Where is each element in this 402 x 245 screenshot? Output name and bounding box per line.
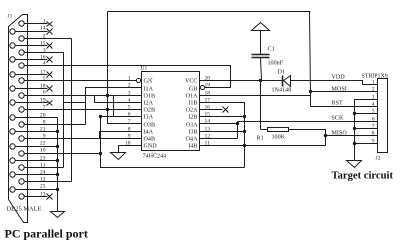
- svg-text:I2B: I2B: [188, 115, 197, 121]
- svg-text:74HC244: 74HC244: [143, 154, 167, 160]
- U1 pin19 inverting bubble: [200, 85, 204, 89]
- svg-text:C1: C1: [268, 47, 275, 53]
- U1 pin13 stub to MISO channel: [200, 131, 245, 133]
- J1 pin 19 wire: [16, 102, 48, 104]
- J1 pin 2 wire: [25, 38, 72, 40]
- junction dot pin14/SCK riser: [236, 122, 239, 125]
- J1 pin 17 circle: [10, 72, 15, 77]
- wire VCC line down to R1: [260, 81, 262, 130]
- junction dot pin6 row x100.4: [99, 115, 102, 118]
- J1 pin 6 circle: [19, 93, 24, 98]
- junction dot pin 25 / gnd rail: [56, 188, 59, 191]
- J1 pin 15 circle: [10, 43, 15, 48]
- J1 pin 1 circle: [19, 21, 24, 26]
- wire loopback pin2-pin12: [71, 39, 73, 182]
- svg-text:8: 8: [128, 127, 131, 133]
- junction dot wire10 x100.4: [99, 152, 102, 155]
- wire IC pin1 row from DB25 pin5: [25, 80, 137, 82]
- J1 pin 23 circle: [10, 158, 15, 163]
- junction dot IC pin5 row x107.8: [106, 108, 109, 111]
- wire J2 pin5 stub to rail: [355, 113, 378, 115]
- svg-text:VCC: VCC: [185, 79, 198, 85]
- J1 pin 17 no-connect X: [47, 72, 53, 78]
- svg-text:O3A: O3A: [186, 123, 198, 129]
- svg-text:19: 19: [40, 98, 46, 104]
- J1 pin 15 wire: [16, 45, 48, 47]
- J1 pin 25 circle: [10, 187, 15, 192]
- junction dot MOSI row riser: [309, 90, 312, 93]
- svg-text:1: 1: [43, 19, 46, 25]
- svg-text:GB: GB: [189, 87, 197, 93]
- svg-text:19: 19: [205, 83, 211, 89]
- wire pin10 drop to bottom channel: [101, 117, 245, 168]
- wire SCK to J2 pin6: [238, 121, 378, 123]
- J1 pin 21 circle: [10, 129, 15, 134]
- svg-text:6: 6: [128, 112, 131, 118]
- U1 pin20 VCC wire to D1: [200, 80, 283, 82]
- wire loopback pin3-pin11: [63, 53, 65, 168]
- J1 pin 11 wire: [25, 167, 64, 169]
- svg-text:GA: GA: [144, 79, 153, 85]
- J1 pin 18 circle: [10, 86, 15, 91]
- svg-text:22: 22: [40, 141, 46, 147]
- J1 pin 13 wire: [25, 196, 48, 198]
- RST riser from pin18 line: [310, 96, 312, 107]
- U1 pin11 wire I4B long: [200, 145, 326, 147]
- J1 pin 7 circle: [19, 107, 24, 112]
- svg-text:GND: GND: [144, 144, 158, 150]
- J1 pin 16 no-connect X: [47, 57, 53, 63]
- J1 pin 24 wire: [16, 174, 58, 176]
- ground symbol IC: [111, 153, 126, 160]
- svg-text:13: 13: [40, 192, 46, 198]
- svg-text:O1B: O1B: [144, 94, 156, 100]
- svg-text:9: 9: [128, 134, 131, 140]
- svg-text:4: 4: [128, 98, 131, 104]
- J1 pin 5 wire: [25, 80, 137, 82]
- J1 pin 23 wire: [16, 160, 58, 162]
- svg-text:DB25 MALE: DB25 MALE: [7, 206, 42, 213]
- svg-text:11: 11: [40, 163, 46, 169]
- wire branch to riser x85.9: [64, 102, 86, 104]
- U1 pin15 stub to MISO channel: [200, 116, 245, 118]
- diode D1 cathode bar: [282, 76, 284, 87]
- J1 pin 25 wire: [16, 189, 58, 191]
- J1 pin 16 wire: [16, 59, 48, 61]
- svg-text:8: 8: [43, 120, 46, 126]
- J1 pin 22 circle: [10, 144, 15, 149]
- J1 pin 16 circle: [10, 57, 15, 62]
- svg-text:I3B: I3B: [188, 130, 197, 136]
- junction dot rail pin5: [353, 112, 356, 115]
- junction dot pin 21 / gnd rail: [56, 130, 59, 133]
- svg-text:I4A: I4A: [144, 130, 154, 136]
- junction dot pin 24 / gnd rail: [56, 173, 59, 176]
- junction dot rail pin9: [353, 142, 356, 145]
- vertical top bus to MOSI: [310, 12, 311, 96]
- J1 pin 1 wire: [25, 23, 48, 25]
- J1 pin 14 circle: [10, 29, 15, 34]
- J1 pin 19 no-connect X: [47, 101, 53, 106]
- J1 pin 4 circle: [19, 63, 24, 68]
- J1 pin 8 wire: [25, 124, 86, 126]
- svg-text:I4B: I4B: [188, 144, 197, 150]
- U1 pin14 stub to SCK riser: [200, 123, 238, 125]
- svg-text:7: 7: [372, 124, 375, 130]
- svg-text:21: 21: [40, 127, 46, 133]
- U1 pin1 inverting bubble: [136, 78, 140, 82]
- J1 pin 9 circle: [19, 136, 24, 141]
- svg-text:I1B: I1B: [188, 101, 197, 107]
- J1 pin 6 wire: [25, 95, 142, 97]
- wire VCC symbol to C1: [260, 31, 262, 55]
- wire pin8 riser to IC pin2: [86, 88, 142, 125]
- diode D1 triangle: [284, 76, 291, 87]
- svg-text:9: 9: [372, 139, 375, 145]
- J1 pin 8 circle: [19, 122, 24, 127]
- svg-text:Target circuit: Target circuit: [332, 171, 394, 182]
- wire IC pin5 row from DB25 pin7: [25, 109, 142, 111]
- J1 pin 14 wire: [16, 31, 48, 33]
- J2 gnd rail: [355, 100, 378, 161]
- svg-text:MOSI: MOSI: [332, 87, 347, 93]
- svg-text:4: 4: [372, 102, 375, 108]
- svg-text:J2: J2: [376, 156, 381, 162]
- svg-text:O4B: O4B: [144, 137, 156, 143]
- op IC U1 74HC244 body: [142, 72, 200, 151]
- J1 pin 24 circle: [10, 172, 15, 177]
- wire R1 right lead to MISO: [289, 130, 326, 146]
- J1 pin 2 circle: [19, 36, 24, 41]
- svg-text:25: 25: [40, 184, 46, 190]
- SCK riser vertical: [237, 122, 239, 139]
- U1 pin17 wire I1B to MISO channel: [200, 103, 245, 168]
- J1 pin 21 wire: [16, 131, 58, 133]
- J1 pin 12 circle: [19, 179, 24, 184]
- U1 pin12 stub to SCK riser: [200, 138, 238, 140]
- svg-text:PC parallel port: PC parallel port: [5, 227, 88, 241]
- svg-text:9: 9: [43, 134, 46, 140]
- capacitor C1 plates: [252, 54, 270, 56]
- svg-text:2: 2: [372, 87, 375, 93]
- vertical O1B/O2B tie to top wire: [107, 12, 109, 110]
- svg-text:24: 24: [40, 170, 46, 176]
- svg-text:14: 14: [40, 26, 46, 32]
- wire pin4 row from pin3 row: [95, 96, 142, 103]
- wire C1 to VCC line: [261, 58, 262, 81]
- J1 pin 4 wire: [25, 65, 231, 67]
- J1 pin 20 wire: [16, 117, 58, 119]
- J1 pin 19 circle: [10, 100, 15, 105]
- svg-text:5: 5: [128, 105, 131, 111]
- wire pin9 riser to IC pin8: [100, 132, 142, 139]
- J1 pin 15 no-connect X: [47, 43, 53, 49]
- J1 pin 17 wire: [16, 74, 48, 76]
- svg-text:3: 3: [43, 48, 46, 54]
- svg-text:O1A: O1A: [186, 94, 198, 100]
- svg-text:O4A: O4A: [186, 137, 198, 143]
- svg-text:7: 7: [128, 119, 131, 125]
- junction dot MISO row: [324, 134, 327, 137]
- J1 pin 10 wire: [25, 153, 101, 155]
- svg-text:I3A: I3A: [144, 115, 154, 121]
- svg-text:2: 2: [128, 83, 131, 89]
- svg-text:2: 2: [43, 34, 46, 40]
- svg-text:U1: U1: [141, 66, 148, 72]
- J1 pin 14 no-connect X: [47, 29, 53, 35]
- J1 pin 7 wire: [25, 109, 142, 111]
- junction dot pin 22 / gnd rail: [56, 145, 59, 148]
- wire R1 left lead: [261, 129, 268, 131]
- svg-text:6: 6: [43, 90, 46, 96]
- wire MISO to J2 pin8: [326, 135, 378, 137]
- svg-text:6: 6: [372, 117, 375, 123]
- wire RST to J2 pin4: [311, 106, 378, 108]
- junction dot rail pin7: [353, 127, 356, 130]
- svg-text:3: 3: [372, 95, 375, 101]
- U1 pin10 GND wire: [119, 146, 142, 153]
- svg-text:100K: 100K: [272, 135, 286, 141]
- J1 pin 12 wire: [25, 181, 72, 183]
- svg-text:STRIP1X9: STRIP1X9: [362, 74, 388, 80]
- J1 pin 20 circle: [10, 115, 15, 120]
- J1 pin 5 circle: [19, 78, 24, 83]
- resistor R1 body: [268, 128, 289, 132]
- U1 pin18 wire O1A long: [200, 95, 311, 97]
- svg-text:100nF: 100nF: [268, 61, 284, 67]
- svg-text:O2B: O2B: [144, 108, 156, 114]
- svg-text:O3B: O3B: [144, 123, 156, 129]
- svg-text:8: 8: [372, 131, 375, 137]
- J1 pin 18 no-connect X: [47, 86, 53, 92]
- wire DB25 pin4 over IC to pin19: [25, 66, 231, 88]
- wire pin6 stub to IC pin6: [101, 116, 142, 118]
- wire IC pin7 stub from x107.8: [108, 110, 142, 124]
- GND rail wire from pin 20 down: [57, 118, 59, 212]
- ground symbol PC side: [51, 212, 65, 218]
- wire D1 to VDD: [291, 81, 378, 85]
- svg-text:D1: D1: [278, 70, 285, 76]
- J1 pin 13 no-connect X: [47, 194, 53, 200]
- svg-text:VDD: VDD: [332, 75, 346, 81]
- wire J2 pin9 stub to rail: [355, 143, 378, 145]
- connector J2 body: [378, 79, 388, 153]
- junction dot pin11/MISO channel: [243, 144, 246, 147]
- junction dot IC pin3 row x107.8: [106, 94, 109, 97]
- svg-text:RST: RST: [332, 101, 343, 107]
- svg-text:20: 20: [40, 113, 46, 119]
- J1 pin 1 no-connect X: [47, 22, 53, 27]
- svg-text:12: 12: [40, 177, 46, 183]
- svg-text:MISO: MISO: [332, 131, 348, 137]
- svg-text:I2A: I2A: [144, 101, 154, 107]
- svg-text:3: 3: [128, 91, 131, 97]
- J1 pin 3 circle: [19, 50, 24, 55]
- junction dot VCC/C1/R1: [259, 79, 262, 82]
- svg-text:I1A: I1A: [144, 87, 154, 93]
- svg-text:23: 23: [40, 156, 46, 162]
- svg-text:1: 1: [372, 80, 375, 86]
- U1 pin16 stub with no-connect X: [200, 109, 223, 111]
- connector J1 DB25 body: [9, 15, 28, 223]
- svg-text:J1: J1: [8, 14, 13, 20]
- svg-text:O2A: O2A: [186, 108, 198, 114]
- J1 pin 11 circle: [19, 165, 24, 170]
- wire pin3 row to pin6 row vertical: [113, 96, 115, 117]
- wire MOSI to J2 pin2: [311, 91, 378, 93]
- J1 pin 10 circle: [19, 151, 24, 156]
- svg-text:1: 1: [128, 76, 131, 82]
- svg-text:SCK: SCK: [332, 116, 344, 122]
- J1 pin 3 wire: [25, 52, 64, 54]
- svg-text:15: 15: [40, 41, 46, 47]
- svg-text:5: 5: [372, 109, 375, 115]
- top bus wire: [108, 11, 311, 13]
- J1 pin 18 wire: [16, 88, 48, 90]
- ground symbol target side: [347, 161, 362, 168]
- svg-text:10: 10: [40, 148, 46, 154]
- J1 pin 13 circle: [19, 194, 24, 199]
- J1 pin 9 wire: [25, 138, 142, 140]
- svg-text:R1: R1: [257, 136, 264, 142]
- wire J2 pin7 stub to rail: [355, 128, 378, 130]
- J1 pin 22 wire: [16, 146, 58, 148]
- svg-text:1N4148: 1N4148: [272, 88, 292, 94]
- junction dot pin 23 / gnd rail: [56, 159, 59, 162]
- power symbol VCC up triangle: [252, 23, 270, 31]
- wire IC pin3 row from DB25 pin6: [25, 95, 142, 97]
